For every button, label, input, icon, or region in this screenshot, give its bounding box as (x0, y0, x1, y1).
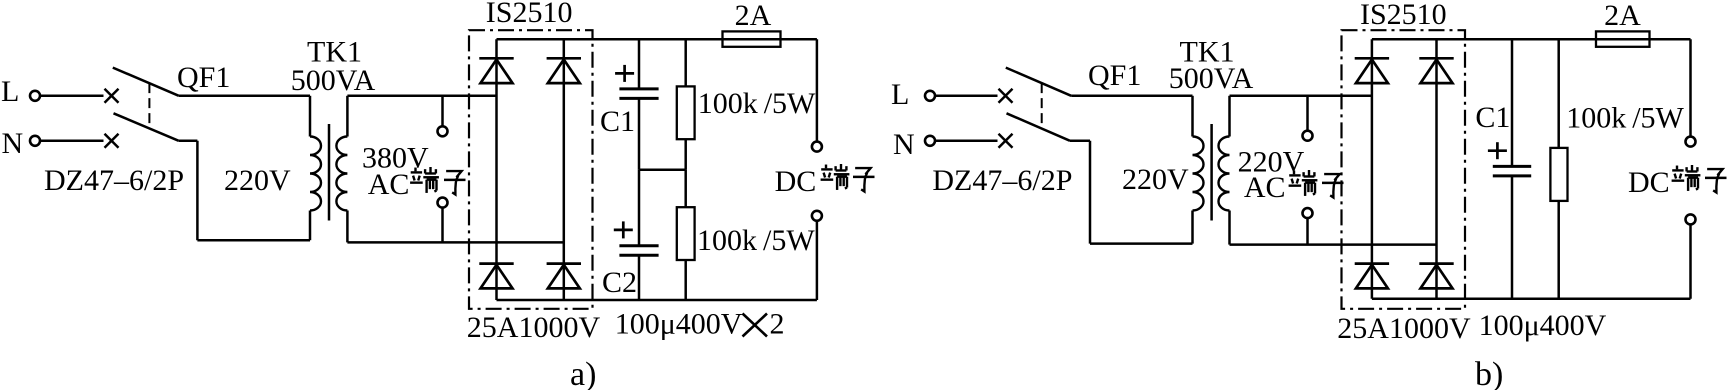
svg-text:500VA: 500VA (291, 64, 376, 97)
svg-text:C1: C1 (1475, 101, 1510, 134)
svg-text:100k /5W: 100k /5W (697, 224, 815, 257)
svg-text:2A: 2A (735, 0, 772, 32)
svg-text:C2: C2 (602, 266, 637, 299)
svg-text:25A1000V: 25A1000V (467, 311, 601, 344)
svg-text:DC: DC (1628, 166, 1670, 199)
svg-text:25A1000V: 25A1000V (1337, 312, 1471, 345)
svg-text:AC: AC (1244, 171, 1286, 204)
svg-text:2: 2 (770, 308, 785, 341)
svg-text:QF1: QF1 (1088, 59, 1141, 92)
svg-text:N: N (2, 127, 24, 160)
svg-text:220V: 220V (1122, 163, 1189, 196)
svg-text:100k /5W: 100k /5W (1566, 102, 1684, 135)
svg-text:220V: 220V (224, 164, 291, 197)
svg-text:2A: 2A (1604, 0, 1641, 32)
svg-text:DC: DC (775, 165, 817, 198)
svg-text:C1: C1 (600, 105, 635, 138)
svg-text:500VA: 500VA (1169, 62, 1254, 95)
svg-text:100μ400V: 100μ400V (1479, 309, 1607, 342)
svg-text:AC: AC (368, 168, 410, 201)
svg-text:L: L (1, 75, 19, 108)
svg-text:b): b) (1475, 356, 1503, 390)
svg-text:100k /5W: 100k /5W (698, 87, 816, 120)
svg-text:DZ47–6/2P: DZ47–6/2P (44, 164, 184, 197)
svg-text:L: L (891, 78, 909, 111)
svg-text:IS2510: IS2510 (1360, 0, 1447, 31)
svg-text:QF1: QF1 (177, 61, 230, 94)
svg-text:N: N (893, 128, 915, 161)
svg-text:a): a) (570, 356, 596, 390)
svg-text:100μ400V: 100μ400V (615, 308, 743, 341)
svg-text:DZ47–6/2P: DZ47–6/2P (932, 164, 1072, 197)
svg-text:IS2510: IS2510 (486, 0, 573, 29)
